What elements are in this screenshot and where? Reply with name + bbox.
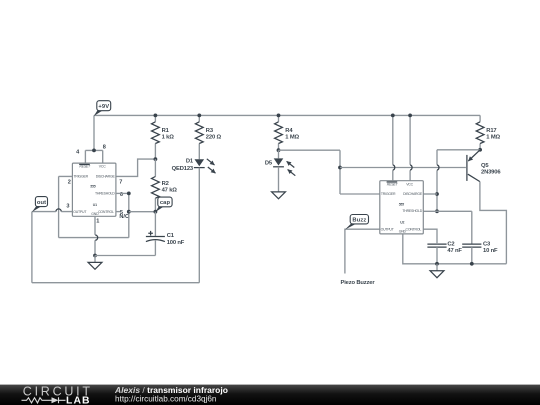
svg-text:QED123: QED123 [172,166,194,172]
node rail-R1 [154,114,158,118]
svg-text:6: 6 [120,192,123,198]
svg-text:1: 1 [96,218,99,224]
diode D5 photodiode [265,158,295,175]
svg-text:1 kΩ: 1 kΩ [162,134,175,140]
svg-text:N/C: N/C [119,214,129,220]
node base wire tee [338,166,342,170]
wire U1 control stub N/C [116,211,120,213]
svg-text:3: 3 [66,203,69,209]
node trigger/cap tee [127,210,131,214]
svg-text:47 kΩ: 47 kΩ [162,187,178,193]
svg-text:2N3906: 2N3906 [481,169,501,175]
wire R1 leads [154,115,156,159]
svg-text:8: 8 [103,144,106,150]
Buzz flag [345,215,369,230]
svg-text:DISCHARGE: DISCHARGE [96,175,116,179]
svg-text:TRIGGER: TRIGGER [381,192,396,196]
ground (U2) [430,271,444,278]
logo resistor-diode symbol [22,397,66,403]
svg-text:out: out [37,200,46,206]
svg-text:OUTPUT: OUTPUT [381,227,395,231]
svg-text:U1: U1 [93,203,97,207]
svg-text:Piezo Buzzer: Piezo Buzzer [341,280,376,286]
svg-text:D1: D1 [186,158,194,164]
wire U1 threshold [116,192,129,194]
ground (U1) [88,262,102,269]
+9V flag [94,101,111,116]
resistor R3 [195,122,203,144]
ground (D5) [272,192,286,199]
diode D1 QED123 LED [172,158,216,173]
svg-text:555: 555 [90,185,95,189]
wire C3 bottom [471,247,473,264]
wire gnd to C1 bottom [95,241,155,256]
node cap junction [154,210,158,214]
node gnd/C1 [93,254,97,258]
svg-text:http://circuitlab.com/cd3qj6n: http://circuitlab.com/cd3qj6n [115,395,217,404]
transistor Q5 2N3906 [467,150,501,182]
wire ground stub [436,264,438,271]
svg-text:R2: R2 [162,181,169,187]
node R17/emitter [478,148,482,152]
svg-text:RESET: RESET [387,182,399,186]
svg-text:Alexis / transmisor infrarojo: Alexis / transmisor infrarojo [114,385,228,395]
node C2-ground [435,262,439,266]
node rail-R4 [277,114,281,118]
svg-text:Buzz: Buzz [352,217,366,223]
wire U1 output to out flag and LED loop [32,168,199,283]
node rail-R3 [197,114,201,118]
svg-text:100 nF: 100 nF [167,240,185,246]
resistor R1 [152,122,160,144]
svg-text:THRESHOLD: THRESHOLD [95,192,115,196]
node U2 discharge tee [435,192,439,196]
svg-text:1 MΩ: 1 MΩ [486,134,500,140]
wire U2 control to C2 [423,229,437,244]
svg-text:47 nF: 47 nF [447,248,462,254]
svg-text:DISCHARGE: DISCHARGE [403,192,423,196]
wire discharge U1 [116,159,155,176]
wire U2 reset stub [392,115,394,180]
svg-text:1 MΩ: 1 MΩ [285,134,299,140]
wire U2 vcc stub [409,115,411,180]
wire D5 anode [278,150,280,158]
svg-text:C2: C2 [447,241,454,247]
node rail-reset [391,114,395,118]
hop output wire over trigger wire [56,209,61,212]
svg-text:C1: C1 [167,233,175,239]
wire R4 leads [278,115,280,150]
svg-text:VCC: VCC [99,165,106,169]
capacitor C1 [146,231,185,246]
wire D5 node to U2 trigger [279,150,380,194]
svg-text:220 Ω: 220 Ω [206,134,222,140]
svg-text:TRIGGER: TRIGGER [74,175,89,179]
wire U1 trigger loop [59,176,129,237]
wire U2 ground rail [403,234,507,264]
svg-text:R3: R3 [206,128,214,134]
svg-text:LAB: LAB [66,396,91,405]
node U2 threshold tee [435,209,439,213]
node threshold junction [127,192,131,196]
hop gnd wire over threshold wire [95,235,98,240]
hop vcc over base wire [410,165,412,170]
wire R17 leads [479,115,481,149]
svg-text:cap: cap [160,200,171,206]
capacitor C2 [427,241,462,253]
out flag [32,197,48,212]
svg-text:7: 7 [119,179,122,185]
wire U1 gnd stub [94,216,96,255]
resistor R17 [476,122,484,144]
hop discharge column over base wire [437,165,439,170]
resistor R4 [275,122,283,144]
svg-text:C3: C3 [483,241,491,247]
node discharge/R1/R2 [154,157,158,161]
resistor R2 [152,177,160,199]
svg-text:U2: U2 [400,220,404,224]
svg-text:2: 2 [68,179,71,185]
node R4/D5 [277,148,281,152]
wire cap node to C1 top [154,212,156,237]
svg-text:+9V: +9V [98,104,109,110]
svg-text:CONTROL: CONTROL [406,227,422,231]
svg-text:THRESHOLD: THRESHOLD [402,209,422,213]
svg-text:R17: R17 [486,128,496,134]
wire Q5 base [340,167,466,169]
wire R3 leads [198,115,200,159]
hop reset over base wire [393,165,395,170]
svg-text:OUTPUT: OUTPUT [73,210,87,214]
555 timer IC U1 [72,163,116,216]
svg-text:CONTROL: CONTROL [98,210,114,214]
wire U2 threshold to C3 [423,211,472,244]
cap flag [155,197,172,212]
svg-text:RESET: RESET [79,165,91,169]
wire +9V to U1 supply [93,115,95,150]
svg-text:555: 555 [399,202,404,206]
svg-text:Q5: Q5 [481,163,489,169]
wire gnd symbol stub [94,256,96,263]
wire U2 discharge [423,193,437,195]
555 timer IC U2 [380,181,424,234]
wire +9V rail [94,114,480,116]
node +9V/U1 join [92,149,96,153]
svg-text:R1: R1 [162,128,170,134]
wire D5 cathode to ground [278,167,280,192]
node C3-ground [470,262,474,266]
footer bar [0,385,540,405]
wire C2 bottom [436,247,438,264]
wire U1 reset/vcc join [85,150,102,163]
wire Q5 collector [480,182,507,264]
capacitor C3 [462,241,498,253]
wire tee to cap node [129,211,156,213]
svg-text:10 nF: 10 nF [483,248,498,254]
wire R2 leads [154,159,156,212]
wire emitter node to discharge column [437,150,480,212]
svg-text:VCC: VCC [406,182,413,186]
svg-text:D5: D5 [265,161,273,167]
svg-text:R4: R4 [285,128,293,134]
node rail-vcc [408,114,412,118]
wire U2 output to buzzer [345,229,380,273]
